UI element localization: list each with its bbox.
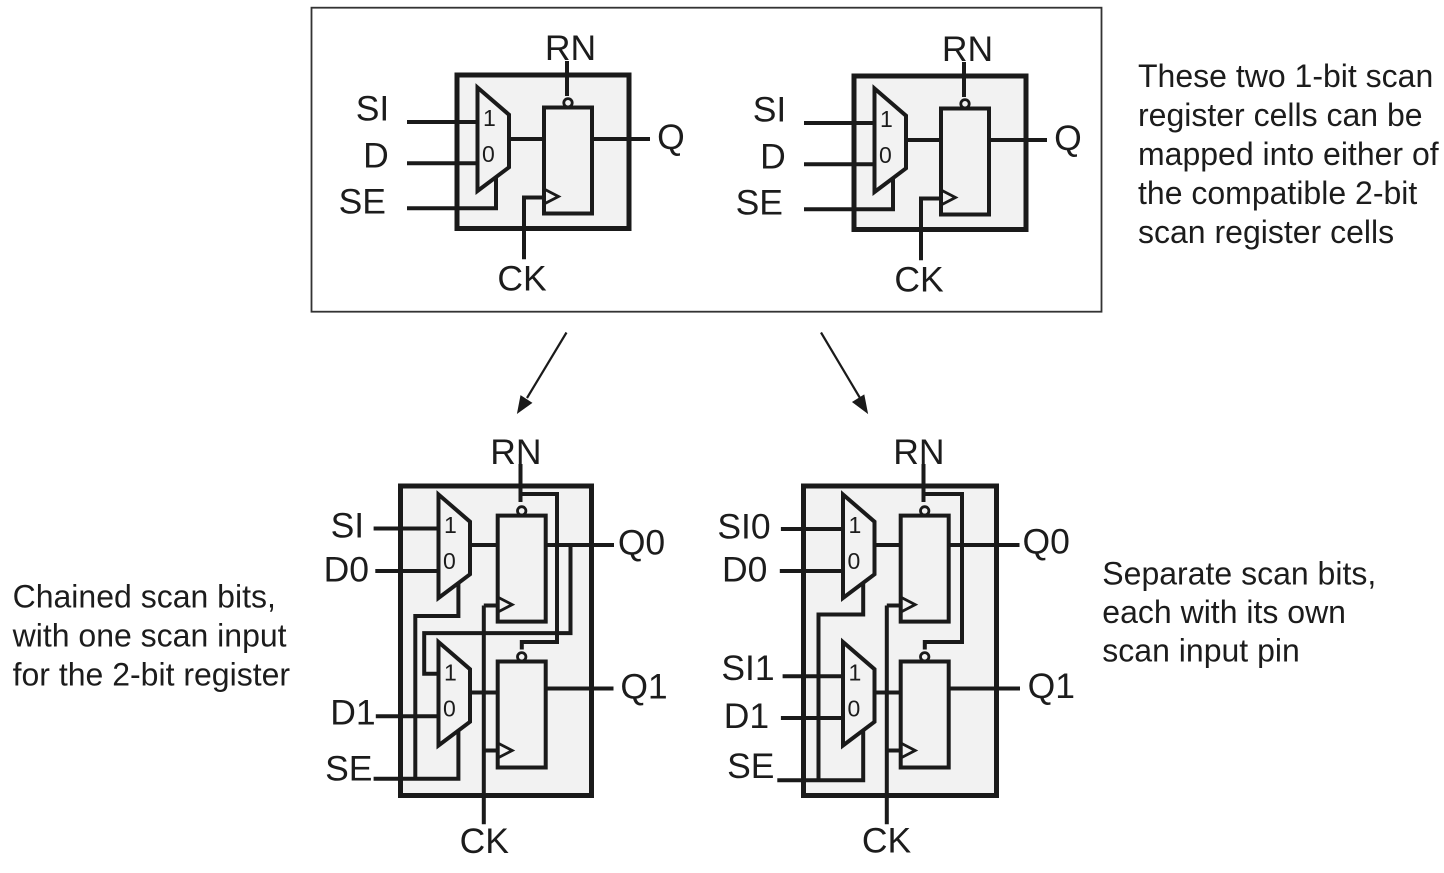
svg-text:SI0: SI0 [717,507,770,547]
svg-text:These two 1-bit scan: These two 1-bit scan [1138,58,1433,94]
svg-text:CK: CK [460,821,510,861]
svg-text:Separate scan bits,: Separate scan bits, [1102,555,1376,591]
svg-text:Q0: Q0 [618,523,665,563]
svg-text:RN: RN [490,432,541,472]
svg-text:Q: Q [657,117,685,157]
svg-text:scan register cells: scan register cells [1138,214,1394,250]
svg-text:with one scan input: with one scan input [12,618,287,654]
svg-text:SI1: SI1 [721,648,774,688]
svg-text:mapped into either of: mapped into either of [1138,136,1439,172]
svg-text:scan input pin: scan input pin [1102,632,1299,668]
svg-text:CK: CK [862,821,912,861]
svg-text:D1: D1 [724,696,769,736]
svg-text:each with its own: each with its own [1102,594,1346,630]
svg-text:D1: D1 [330,692,375,732]
svg-text:RN: RN [545,28,596,68]
svg-text:Chained scan bits,: Chained scan bits, [13,579,276,615]
svg-text:register cells can be: register cells can be [1138,97,1423,133]
svg-text:for the 2-bit register: for the 2-bit register [13,657,291,693]
svg-text:Q0: Q0 [1023,522,1070,562]
svg-text:RN: RN [893,432,944,472]
svg-text:SE: SE [339,182,386,222]
svg-text:D0: D0 [722,550,767,590]
svg-text:SE: SE [325,749,372,789]
svg-text:D0: D0 [324,550,369,590]
svg-text:SE: SE [727,746,774,786]
svg-text:SI: SI [356,89,390,129]
svg-text:CK: CK [497,259,547,299]
svg-text:Q1: Q1 [620,666,667,706]
svg-text:the compatible 2-bit: the compatible 2-bit [1138,175,1417,211]
svg-text:SI: SI [331,506,365,546]
svg-text:D: D [363,136,389,176]
svg-text:Q1: Q1 [1028,666,1075,706]
